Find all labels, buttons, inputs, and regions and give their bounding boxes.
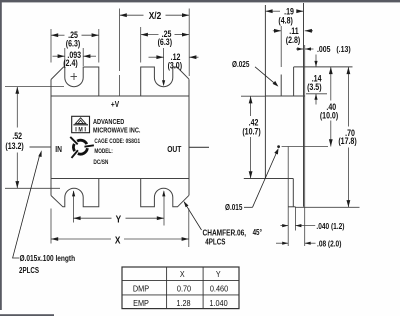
svg-text:(6.3): (6.3) bbox=[158, 37, 173, 47]
svg-text:(4.8): (4.8) bbox=[278, 16, 293, 26]
svg-text:OUT: OUT bbox=[167, 144, 181, 154]
side view top tab face bbox=[293, 67, 295, 96]
svg-text:DC/SN: DC/SN bbox=[93, 159, 108, 166]
svg-text:(3.5): (3.5) bbox=[307, 82, 322, 92]
svg-text:0.70: 0.70 bbox=[177, 284, 192, 294]
dimension .52 (13.2) vertical bbox=[5, 86, 64, 88]
svg-text:1.040: 1.040 bbox=[209, 298, 228, 308]
side view cover face extension bbox=[280, 26, 282, 67]
dimension .25 (6.3) right bbox=[140, 27, 142, 63]
dimension Y between slot centers bbox=[72, 191, 74, 222]
side view bottom edge extension bbox=[295, 206, 359, 208]
svg-text:1.28: 1.28 bbox=[176, 298, 191, 308]
svg-text:EMP: EMP bbox=[133, 298, 149, 308]
extension for .040 bbox=[294, 207, 296, 231]
svg-text:0.460: 0.460 bbox=[210, 284, 229, 294]
front view left edge bbox=[50, 80, 52, 196]
svg-text:+V: +V bbox=[111, 99, 119, 109]
dimension .19 (4.8) bbox=[265, 10, 280, 12]
dimension .42 (10.7) bbox=[250, 96, 252, 116]
front view top-right tab with slot and chamfer bbox=[141, 67, 189, 96]
svg-text:X: X bbox=[115, 233, 121, 245]
svg-text:(10.7): (10.7) bbox=[242, 127, 261, 137]
logo divider line bbox=[73, 124, 88, 126]
dimension .40 (10.0) bbox=[330, 67, 332, 101]
svg-text:(2.8): (2.8) bbox=[286, 35, 301, 45]
dimension X overall bbox=[50, 209, 52, 244]
IN pin lead bbox=[30, 146, 52, 148]
side view bottom step bbox=[288, 206, 295, 208]
dimension .005 (.13) bbox=[296, 48, 303, 50]
svg-text:ADVANCED: ADVANCED bbox=[93, 119, 125, 127]
svg-text:(6.3): (6.3) bbox=[66, 39, 81, 49]
dimension .040 (1.2) bbox=[280, 225, 288, 227]
side view top edge + extension bbox=[294, 66, 353, 68]
svg-text:(17.8): (17.8) bbox=[338, 136, 357, 146]
pin level extension line bbox=[282, 146, 328, 148]
svg-text:CHAMFER.06,: CHAMFER.06, bbox=[203, 228, 247, 238]
ESD sensitivity symbol bbox=[77, 140, 87, 144]
svg-text:M: M bbox=[78, 127, 82, 134]
svg-text:(10.0): (10.0) bbox=[320, 111, 339, 121]
manufacturer logo box bbox=[72, 116, 90, 132]
svg-text:.005 (.13): .005 (.13) bbox=[317, 44, 351, 54]
svg-text:MICROWAVE INC.: MICROWAVE INC. bbox=[93, 127, 141, 135]
table: X/Y values for DMP and EMP bbox=[122, 267, 239, 309]
svg-text:.08 (2.0): .08 (2.0) bbox=[317, 239, 342, 249]
dimension .25 (6.3) left bbox=[50, 29, 52, 63]
pin end view dot bbox=[277, 145, 280, 148]
dimension X/2 bbox=[119, 9, 121, 72]
svg-text:2PLCS: 2PLCS bbox=[19, 267, 39, 275]
front view top-left tab with slot and chamfer bbox=[51, 67, 99, 96]
front view cover bottom edge bbox=[51, 178, 189, 180]
side view flange outer face / extension bbox=[304, 45, 306, 246]
svg-text:IN: IN bbox=[55, 144, 62, 154]
svg-text:DMP: DMP bbox=[133, 284, 149, 294]
side view cover bottom edge + extension bbox=[244, 178, 293, 180]
svg-text:X/2: X/2 bbox=[149, 9, 161, 21]
leader: chamfer callout bbox=[184, 202, 201, 230]
side view tab outer face bbox=[303, 3, 305, 207]
svg-text:(2.4): (2.4) bbox=[63, 58, 78, 68]
svg-text:.52: .52 bbox=[12, 131, 22, 141]
svg-text:4PLCS: 4PLCS bbox=[205, 239, 225, 247]
svg-text:.040 (1.2): .040 (1.2) bbox=[316, 221, 344, 231]
dimension .093 (2.4) slot width bbox=[64, 48, 66, 66]
svg-text:Y: Y bbox=[116, 212, 122, 224]
side view bottom tab face bbox=[292, 179, 294, 207]
svg-text:MODEL:: MODEL: bbox=[94, 149, 113, 156]
dimension .12 (3.0) slot offset bbox=[163, 48, 165, 85]
svg-text:Ø.025: Ø.025 bbox=[232, 59, 249, 69]
svg-text:45°: 45° bbox=[253, 228, 263, 237]
side view cover top edge bbox=[265, 95, 304, 97]
logo triangle bbox=[75, 118, 85, 124]
svg-text:(3.0): (3.0) bbox=[168, 61, 183, 71]
svg-text:Ø.015x.100 length: Ø.015x.100 length bbox=[20, 253, 76, 263]
svg-text:(13.2): (13.2) bbox=[5, 141, 24, 151]
svg-text:X: X bbox=[180, 269, 185, 279]
top-left slot center mark bbox=[71, 76, 78, 78]
dimension .11 (2.8) bbox=[273, 30, 281, 32]
front view cover top edge bbox=[51, 95, 189, 97]
dimension .08 (2.0) bbox=[276, 242, 288, 244]
extension at flange rear bbox=[287, 147, 289, 247]
dimension .14 (3.5) bbox=[315, 55, 317, 67]
front view bottom-right tab with slot and chamfer bbox=[141, 179, 189, 207]
dimension .70 (17.8) bbox=[347, 67, 349, 127]
extension for .42 top bbox=[241, 95, 265, 97]
OUT pin lead bbox=[189, 146, 209, 148]
front view bottom-left tab with slot and chamfer bbox=[51, 179, 99, 207]
svg-text:Ø.015: Ø.015 bbox=[225, 202, 242, 212]
svg-text:Y: Y bbox=[216, 269, 221, 279]
svg-text:CAGE CODE: 0S8G1: CAGE CODE: 0S8G1 bbox=[94, 139, 140, 146]
side view rear face bbox=[264, 5, 266, 179]
front view right edge bbox=[188, 79, 190, 195]
side view cover face edge bbox=[280, 75, 282, 96]
leader: pin callout bbox=[13, 155, 40, 259]
